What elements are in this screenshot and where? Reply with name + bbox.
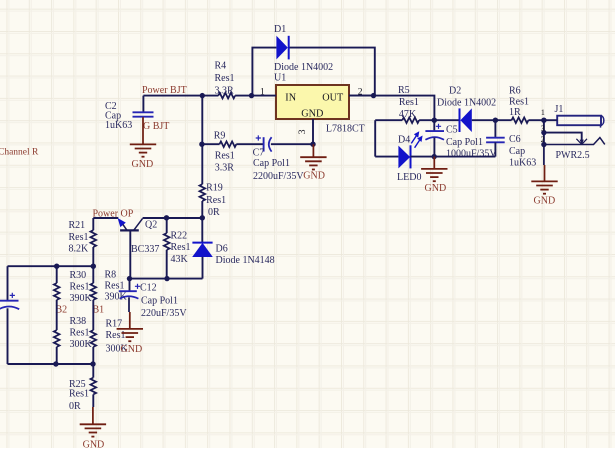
svg-text:Channel R: Channel R xyxy=(0,147,39,157)
svg-text:GND: GND xyxy=(425,183,447,194)
svg-text:C6: C6 xyxy=(509,134,521,145)
svg-text:Cap Pol1: Cap Pol1 xyxy=(141,296,178,307)
ground xyxy=(531,145,557,207)
node junction xyxy=(164,276,169,281)
capacitor C12 xyxy=(119,279,188,319)
capacitor C7 xyxy=(236,135,313,182)
svg-text:R4: R4 xyxy=(215,61,227,72)
wire xyxy=(130,278,203,280)
pin 3 of U1 xyxy=(298,119,313,144)
svg-text:D2: D2 xyxy=(449,85,461,96)
svg-text:390K: 390K xyxy=(70,293,93,304)
svg-text:R22: R22 xyxy=(171,230,188,241)
svg-text:0R: 0R xyxy=(69,401,81,412)
node junction xyxy=(541,142,546,147)
svg-text:BC337: BC337 xyxy=(131,244,159,255)
svg-text:43K: 43K xyxy=(171,254,189,265)
svg-text:Res1: Res1 xyxy=(215,150,235,161)
svg-text:GND: GND xyxy=(534,196,556,207)
svg-text:3.3R: 3.3R xyxy=(215,86,235,97)
op-amp U1 xyxy=(274,73,365,135)
wire xyxy=(543,120,545,144)
node junction xyxy=(432,118,437,123)
node junction xyxy=(541,118,546,123)
svg-text:3.3R: 3.3R xyxy=(215,163,235,174)
node junction xyxy=(54,264,59,269)
svg-text:C5: C5 xyxy=(446,124,458,135)
svg-text:R8: R8 xyxy=(105,269,117,280)
svg-text:J1: J1 xyxy=(555,104,564,115)
svg-text:Res1: Res1 xyxy=(69,232,89,243)
capacitor C5 xyxy=(425,120,497,159)
node junction xyxy=(53,361,58,366)
pin 1 of U1 xyxy=(252,88,277,98)
resistor R38 xyxy=(54,300,93,364)
wire xyxy=(143,95,218,97)
wire xyxy=(93,217,118,219)
resistor R22 xyxy=(164,218,191,279)
svg-text:D6: D6 xyxy=(216,243,228,254)
svg-text:Res1: Res1 xyxy=(105,281,125,292)
svg-text:0R: 0R xyxy=(208,207,220,218)
svg-text:Res1: Res1 xyxy=(399,97,419,108)
svg-text:R21: R21 xyxy=(69,220,86,231)
svg-text:R9: R9 xyxy=(214,131,226,142)
capacitor C6 xyxy=(486,120,536,169)
svg-text:R17: R17 xyxy=(106,318,123,329)
ground xyxy=(300,144,326,181)
transistor Q2 xyxy=(118,218,160,279)
pin 2 of U1 xyxy=(349,88,374,98)
svg-text:U1: U1 xyxy=(274,73,286,84)
svg-text:Res1: Res1 xyxy=(215,73,235,84)
ground xyxy=(421,157,447,194)
diode D6 xyxy=(192,218,274,279)
resistor R8 xyxy=(91,266,128,302)
svg-text:47K: 47K xyxy=(399,109,417,120)
svg-text:1: 1 xyxy=(541,108,545,117)
resistor R6 xyxy=(509,85,544,123)
wire xyxy=(252,48,276,96)
resistor R30 xyxy=(54,266,93,304)
node junction xyxy=(200,215,205,220)
svg-text:1uK63: 1uK63 xyxy=(105,120,132,131)
svg-text:Diode 1N4148: Diode 1N4148 xyxy=(216,255,275,266)
pin 1 of J1 xyxy=(544,119,557,121)
node junction xyxy=(200,93,205,98)
pin 2 of J1 xyxy=(544,138,605,145)
wire xyxy=(374,120,376,156)
ground xyxy=(80,407,106,450)
resistor R4 xyxy=(215,61,252,99)
svg-text:Diode 1N4002: Diode 1N4002 xyxy=(437,97,496,108)
wire xyxy=(8,265,94,267)
diode D1 xyxy=(274,24,333,73)
wire xyxy=(349,96,434,121)
resistor R17 xyxy=(91,300,129,364)
svg-text:Diode 1N4002: Diode 1N4002 xyxy=(274,62,333,73)
svg-text:R5: R5 xyxy=(398,85,410,96)
node junction xyxy=(199,142,204,147)
svg-text:GND: GND xyxy=(301,109,323,120)
node junction xyxy=(127,276,132,281)
svg-text:Res1: Res1 xyxy=(171,242,191,253)
svg-text:PWR2.5: PWR2.5 xyxy=(556,150,590,161)
ground xyxy=(130,117,156,170)
diode D2 xyxy=(437,85,496,132)
resistor R25 xyxy=(69,364,96,412)
svg-text:D1: D1 xyxy=(274,24,286,35)
wire xyxy=(143,217,203,219)
node junction xyxy=(90,361,95,366)
svg-text:1: 1 xyxy=(260,88,265,98)
node junction xyxy=(91,264,96,269)
svg-text:GND: GND xyxy=(83,439,105,448)
svg-text:OUT: OUT xyxy=(322,93,344,104)
svg-text:GND: GND xyxy=(132,159,154,170)
capacitor B xyxy=(0,266,19,364)
svg-text:R6: R6 xyxy=(509,85,521,96)
node junction xyxy=(164,215,169,220)
svg-text:3: 3 xyxy=(541,124,545,133)
svg-text:Q2: Q2 xyxy=(145,219,157,230)
node junction xyxy=(541,130,546,135)
svg-text:3: 3 xyxy=(298,129,308,134)
svg-text:Res1: Res1 xyxy=(206,195,226,206)
node junction xyxy=(310,142,315,147)
svg-text:Cap Pol1: Cap Pol1 xyxy=(446,137,483,148)
svg-text:LED0: LED0 xyxy=(397,172,421,183)
resistor R5 xyxy=(398,85,460,123)
svg-text:Res1: Res1 xyxy=(70,282,90,293)
svg-text:Res1: Res1 xyxy=(70,328,90,339)
svg-text:300K: 300K xyxy=(70,339,93,350)
wire xyxy=(411,156,496,158)
wire xyxy=(201,96,203,185)
svg-text:L7818CT: L7818CT xyxy=(326,124,365,135)
svg-text:D4: D4 xyxy=(398,134,410,145)
wire xyxy=(375,119,402,121)
capacitor C2 xyxy=(105,96,154,132)
svg-text:Power BJT: Power BJT xyxy=(142,85,187,96)
svg-text:R30: R30 xyxy=(70,270,87,281)
svg-text:Res1: Res1 xyxy=(509,96,529,107)
wire xyxy=(375,156,398,158)
node junction xyxy=(371,93,376,98)
resistor R21 xyxy=(69,218,97,266)
svg-text:B1: B1 xyxy=(93,305,105,316)
svg-text:Res1: Res1 xyxy=(106,330,126,341)
svg-text:2200uF/35V: 2200uF/35V xyxy=(253,171,304,182)
svg-text:GND: GND xyxy=(303,170,325,181)
svg-text:Res1: Res1 xyxy=(69,389,89,400)
svg-text:1R: 1R xyxy=(509,107,521,118)
svg-text:1000uF/35V: 1000uF/35V xyxy=(446,148,497,159)
wire xyxy=(8,363,94,365)
svg-text:Cap Pol1: Cap Pol1 xyxy=(253,158,290,169)
connector J1 xyxy=(555,104,604,161)
svg-text:Cap: Cap xyxy=(509,146,525,157)
svg-text:220uF/35V: 220uF/35V xyxy=(141,308,187,319)
svg-text:C7: C7 xyxy=(253,147,265,158)
svg-text:G BJT: G BJT xyxy=(143,121,169,132)
wire xyxy=(472,119,512,121)
svg-text:2: 2 xyxy=(541,135,545,144)
node junction xyxy=(493,118,498,123)
resistor R9 xyxy=(202,131,236,174)
LED D4 xyxy=(397,131,423,183)
pin 3 of J1 xyxy=(544,133,587,145)
ground xyxy=(117,312,143,355)
node junction xyxy=(249,93,254,98)
svg-text:1uK63: 1uK63 xyxy=(509,158,536,169)
svg-text:IN: IN xyxy=(285,93,296,104)
resistor R19 xyxy=(200,183,227,219)
svg-text:GND: GND xyxy=(121,344,143,355)
wire xyxy=(289,48,375,96)
node junction xyxy=(432,154,437,159)
svg-text:R19: R19 xyxy=(206,183,223,194)
svg-text:R38: R38 xyxy=(70,316,87,327)
svg-text:8.2K: 8.2K xyxy=(69,244,90,255)
svg-text:C12: C12 xyxy=(140,283,157,294)
